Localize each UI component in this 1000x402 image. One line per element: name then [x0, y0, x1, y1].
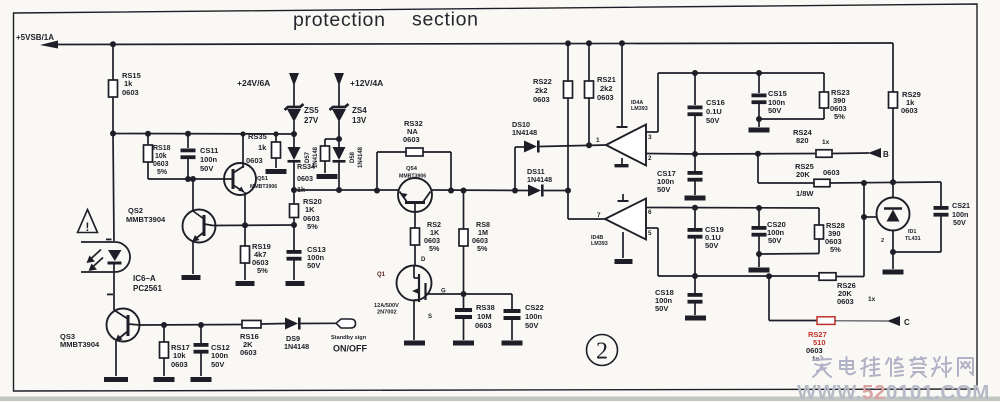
- op-amp B gnd stem: [622, 232, 624, 258]
- svg-text:0603: 0603: [806, 346, 823, 355]
- wire QS3 emitter: [115, 341, 117, 376]
- junction y179 x188: [185, 176, 191, 182]
- ground RS38: [453, 341, 474, 346]
- wire RS8 bottom: [463, 246, 465, 294]
- svg-text:D: D: [421, 257, 426, 263]
- wire RS25 right: [830, 182, 941, 183]
- junction RS25 x893: [890, 179, 896, 185]
- wire row y73: [658, 72, 824, 74]
- wire bus y276: [658, 275, 819, 277]
- resistor RS2: [411, 228, 420, 245]
- wire CS18 bottom: [694, 303, 696, 315]
- svg-text:!: !: [86, 222, 90, 234]
- svg-text:0603: 0603: [240, 348, 257, 357]
- wire DS9 out: [301, 322, 336, 324]
- wire CS22 drop: [511, 294, 513, 309]
- ground CS22: [502, 341, 523, 346]
- svg-text:820: 820: [796, 136, 809, 145]
- svg-text:0603: 0603: [246, 156, 263, 165]
- svg-text:TL431: TL431: [905, 236, 921, 242]
- wire RS19 bottom: [244, 263, 246, 280]
- svg-text:1N4148: 1N4148: [358, 146, 364, 168]
- junction pin6 x759: [756, 205, 762, 211]
- wire CS15 bottom: [758, 104, 760, 120]
- svg-text:13V: 13V: [352, 116, 367, 125]
- capacitor CS11: [181, 149, 196, 153]
- wire RS18 bottom: [147, 162, 149, 179]
- svg-text:QS2: QS2: [128, 206, 143, 215]
- svg-text:0603: 0603: [475, 321, 492, 330]
- watermark hanzi jia: [813, 356, 831, 377]
- resistor RS16: [242, 320, 261, 328]
- op-amp A Vplus stem: [621, 43, 623, 127]
- svg-text:CS22: CS22: [525, 303, 544, 312]
- svg-text:Standby sign: Standby sign: [331, 335, 367, 341]
- svg-text:2k2: 2k2: [535, 86, 548, 95]
- watermark hanzi xiu: [886, 357, 903, 376]
- wire RS35 top: [275, 134, 277, 142]
- svg-text:ON/OFF: ON/OFF: [333, 344, 367, 354]
- wire RS29 bottom: [892, 108, 894, 182]
- svg-text:5%: 5%: [834, 112, 845, 121]
- resistor RS15: [109, 80, 118, 97]
- wire RS23 top: [823, 73, 825, 92]
- wire pin2 row: [695, 153, 816, 156]
- svg-text:5%: 5%: [429, 244, 440, 253]
- wire CS20 gnd stem: [758, 254, 760, 267]
- svg-text:50V: 50V: [768, 106, 781, 115]
- resistor RS29: [889, 92, 898, 108]
- wire opto top: [113, 134, 114, 242]
- svg-text:RS34: RS34: [297, 162, 315, 171]
- junction y190 x463: [461, 188, 467, 194]
- svg-text:MMBT3906: MMBT3906: [399, 174, 426, 180]
- resistor RS34: [321, 146, 330, 161]
- tl431 ID1: [877, 198, 910, 231]
- ground CS15: [749, 128, 770, 133]
- resistor RS8: [459, 229, 468, 246]
- wire RS19 top: [244, 225, 246, 246]
- svg-text:50V: 50V: [655, 304, 668, 313]
- capacitor CS19: [688, 228, 703, 232]
- svg-text:B: B: [883, 150, 889, 159]
- resistor RS22: [564, 81, 573, 98]
- op-amp ID4A: [606, 125, 646, 166]
- svg-text:RS21: RS21: [597, 75, 616, 84]
- capacitor CS13: [287, 250, 302, 254]
- op-amp ID4B: [605, 199, 646, 240]
- svg-text:12A/500V: 12A/500V: [374, 303, 399, 309]
- wire RS20 top: [293, 190, 295, 204]
- svg-text:1x: 1x: [868, 296, 876, 303]
- wire CS21 bottom: [940, 216, 942, 252]
- capacitor CS21: [934, 206, 949, 210]
- svg-text:2k2: 2k2: [600, 84, 613, 93]
- wire RS22 bottom: [567, 98, 569, 191]
- watermark hanzi wang: [958, 358, 973, 376]
- wire DS10 drop: [514, 147, 516, 191]
- junction y190 x377: [374, 188, 380, 194]
- ground RS34: [317, 174, 338, 179]
- junction pin6 x695: [692, 205, 698, 211]
- wire TL431 top: [892, 182, 894, 198]
- resistor RS35: [272, 142, 281, 158]
- junction y190 x515: [512, 188, 518, 194]
- capacitor CS16: [688, 106, 703, 110]
- svg-text:S: S: [428, 314, 432, 320]
- wire gate row: [432, 293, 513, 295]
- diode DS10: [524, 141, 537, 153]
- svg-text:50V: 50V: [307, 261, 320, 270]
- svg-text:WWW.520101.COM: WWW.520101.COM: [797, 381, 990, 402]
- node C arrow: [887, 316, 900, 326]
- wire CS12 top: [200, 325, 202, 343]
- resistor RS27: [817, 317, 835, 325]
- light arrows: [89, 250, 101, 261]
- junction pin2 x758: [755, 151, 761, 157]
- connector standby: [336, 319, 356, 328]
- watermark hanzi wei: [861, 357, 880, 376]
- wire DS11 out: [544, 190, 568, 192]
- svg-text:10M: 10M: [477, 312, 492, 321]
- capacitor CS17: [688, 171, 703, 175]
- junction top bus x589: [586, 40, 592, 46]
- wire RS25 drop: [757, 154, 759, 183]
- svg-text:50V: 50V: [768, 236, 781, 245]
- capacitor CS20: [752, 226, 767, 230]
- wire CS20 bottom: [758, 236, 760, 254]
- svg-text:1N4148: 1N4148: [284, 342, 309, 351]
- wire RS34 link: [325, 138, 339, 140]
- svg-text:PC2561: PC2561: [133, 284, 162, 293]
- ground CS12: [191, 377, 212, 382]
- watermark hanzi liao: [932, 357, 951, 377]
- svg-text:RS18: RS18: [153, 145, 171, 152]
- wire top bus: [55, 43, 893, 45]
- wire CS13 bottom: [293, 260, 295, 280]
- wire RS32 top left: [377, 151, 406, 153]
- wire bus y190 left: [294, 189, 399, 191]
- svg-text:2: 2: [596, 339, 608, 365]
- wire pin5 drop: [657, 228, 659, 276]
- svg-text:0.1U: 0.1U: [706, 107, 722, 116]
- junction ref x864: [861, 214, 867, 220]
- svg-text:2: 2: [648, 155, 652, 162]
- wire RS27 to C: [835, 320, 888, 322]
- wire CS22 bottom: [511, 320, 513, 340]
- junction y225 x294: [291, 222, 297, 228]
- wire CS15 top: [758, 73, 760, 93]
- svg-text:CS11: CS11: [200, 146, 218, 155]
- wire CS11 top: [187, 134, 189, 148]
- wire bus y190 right: [431, 189, 528, 192]
- warning triangle: [78, 210, 98, 233]
- svg-text:50V: 50V: [657, 185, 670, 194]
- wire ZS5 top: [293, 84, 295, 106]
- junction x113 y133: [110, 131, 116, 137]
- svg-text:CS21: CS21: [952, 201, 970, 210]
- svg-text:5: 5: [648, 230, 652, 237]
- svg-text:50V: 50V: [525, 321, 538, 330]
- svg-text:1K: 1K: [305, 205, 315, 214]
- svg-text:0603: 0603: [597, 93, 614, 102]
- svg-text:5%: 5%: [257, 266, 268, 275]
- junction y73 x759: [756, 70, 762, 76]
- resistor RS24: [816, 150, 832, 158]
- wire top bus corner: [892, 43, 894, 92]
- wire pin3 up: [657, 73, 659, 132]
- junction anode: [890, 249, 896, 255]
- watermark hanzi zi: [910, 357, 926, 377]
- wire ZS4 bottom: [338, 121, 340, 147]
- node +5VSB/1A arrow: [40, 41, 58, 49]
- svg-text:1: 1: [596, 137, 600, 144]
- junction bus2 x188: [185, 131, 191, 137]
- svg-text:0603: 0603: [153, 161, 169, 168]
- transistor Q54: [398, 178, 432, 212]
- svg-text:100n: 100n: [525, 312, 543, 321]
- wire TL431 gnd stem: [892, 252, 894, 269]
- capacitor CS22: [504, 309, 521, 313]
- junction DS11 out: [565, 188, 571, 194]
- svg-text:50V: 50V: [200, 164, 213, 173]
- svg-text:+5VSB/1A: +5VSB/1A: [16, 33, 54, 42]
- wire Q1 source: [413, 300, 415, 340]
- ground QS2: [182, 275, 201, 280]
- junction ZS4 D58: [336, 136, 342, 142]
- page number 2: [587, 335, 618, 366]
- wire RS17 top: [163, 325, 165, 342]
- svg-text:RS38: RS38: [476, 303, 495, 312]
- svg-text:5%: 5%: [477, 244, 488, 253]
- wire RS22 top: [567, 43, 569, 81]
- capacitor CS12: [194, 343, 209, 347]
- svg-text:6: 6: [648, 209, 652, 216]
- svg-text:Q54: Q54: [406, 166, 418, 172]
- svg-text:5%: 5%: [307, 222, 318, 231]
- capacitor CS15: [752, 94, 767, 98]
- svg-text:0603: 0603: [171, 360, 188, 369]
- wire RS20 bottom: [293, 218, 295, 251]
- svg-text:10k: 10k: [155, 153, 167, 160]
- svg-text:1N4148: 1N4148: [512, 128, 537, 137]
- svg-text:100n: 100n: [200, 155, 218, 164]
- svg-text:LM393: LM393: [591, 241, 608, 247]
- wire D58 bottom: [338, 163, 340, 191]
- wire RS18 top: [147, 134, 149, 145]
- ground CS20: [749, 268, 770, 273]
- wire D57 bottom: [293, 163, 295, 191]
- wire RS32 left leg: [376, 152, 378, 191]
- svg-text:2: 2: [881, 238, 884, 244]
- wire bus y133: [113, 133, 294, 136]
- wire CS21 top: [940, 182, 942, 206]
- junction y325 x201: [198, 322, 204, 328]
- wire RS24 to B: [832, 152, 869, 155]
- wire RS2 bottom: [414, 245, 416, 266]
- junction bus2 x148: [145, 131, 151, 137]
- ground TL431: [883, 270, 904, 275]
- op-amp A minus tick: [621, 158, 623, 164]
- wire RS21 bottom: [588, 98, 590, 145]
- svg-text:100n: 100n: [211, 351, 229, 360]
- wire RS32 right leg: [450, 152, 452, 191]
- junction ZS5 D57: [291, 131, 297, 137]
- wire Q51 emitter: [244, 192, 246, 225]
- junction y73 x695: [692, 70, 698, 76]
- svg-text:50V: 50V: [705, 241, 718, 250]
- wire CS19 top: [694, 208, 696, 228]
- optocoupler LED: [108, 250, 122, 261]
- wire RS15 bottom: [112, 97, 114, 134]
- svg-text:50V: 50V: [706, 116, 719, 125]
- watermark hanzi dian: [840, 357, 855, 374]
- resistor RS32: [406, 148, 423, 156]
- svg-text:C: C: [904, 318, 910, 327]
- wire DS10 to out: [540, 145, 606, 147]
- resistor RS23: [820, 92, 829, 108]
- diode DS11: [528, 185, 541, 197]
- diode D58: [333, 147, 346, 160]
- junction RS25 x864: [861, 180, 867, 186]
- ground Q1: [404, 341, 425, 346]
- svg-text:1/8W: 1/8W: [796, 189, 814, 198]
- junction y225 x245: [242, 222, 248, 228]
- junction RS21 out: [586, 142, 592, 148]
- svg-text:ID1: ID1: [908, 229, 916, 235]
- arrow +12V: [334, 73, 344, 86]
- transistor Q51: [224, 163, 256, 195]
- diode DS9: [285, 318, 298, 330]
- svg-text:D58: D58: [350, 151, 356, 163]
- svg-text:+12V/4A: +12V/4A: [350, 78, 383, 88]
- mosfet Q1: [397, 266, 432, 301]
- svg-text:MMBT3904: MMBT3904: [60, 340, 100, 349]
- resistor RS28: [815, 225, 824, 239]
- wire y119 row: [759, 118, 824, 120]
- wire RS28 top corner: [818, 208, 820, 225]
- ground CS18: [685, 316, 706, 321]
- resistor RS20: [290, 204, 299, 218]
- svg-text:0603: 0603: [837, 297, 854, 306]
- zener ZS4: [330, 104, 349, 110]
- svg-text:Q1: Q1: [377, 272, 386, 278]
- svg-text:10k: 10k: [173, 351, 186, 360]
- svg-text:1k: 1k: [124, 79, 133, 88]
- junction y325 x164: [161, 322, 167, 328]
- svg-text:5%: 5%: [157, 169, 168, 176]
- wire RS17 bottom: [163, 358, 165, 376]
- svg-text:MMBT3906: MMBT3906: [250, 184, 277, 190]
- junction y276 x695: [692, 273, 698, 279]
- svg-text:IC6–A: IC6–A: [133, 274, 156, 283]
- capacitor CS18: [688, 293, 703, 297]
- junction top bus x568: [565, 40, 571, 46]
- junction y190 x451: [448, 188, 454, 194]
- wire CS20 top: [758, 208, 760, 226]
- wire CS12 bottom: [200, 353, 202, 376]
- svg-text:LM393: LM393: [631, 106, 648, 112]
- svg-text:7: 7: [597, 212, 601, 219]
- svg-text:0603: 0603: [901, 106, 918, 115]
- junction bus2 x243: [240, 131, 245, 136]
- wire RS26 right: [836, 276, 864, 278]
- svg-text:ZS4: ZS4: [352, 106, 367, 115]
- ground opampB: [615, 259, 633, 264]
- svg-text:ZS5: ZS5: [304, 106, 319, 115]
- diode D57: [288, 147, 301, 160]
- svg-text:0603: 0603: [533, 95, 550, 104]
- junction y190 x339: [336, 187, 342, 193]
- svg-text:1x: 1x: [822, 139, 830, 146]
- resistor RS38 plates: [455, 308, 472, 312]
- wire QS2 emitter: [192, 242, 194, 274]
- svg-text:3: 3: [648, 134, 652, 141]
- svg-text:0603: 0603: [823, 168, 840, 177]
- wire pin6 row: [660, 207, 819, 210]
- ground RS17: [154, 377, 175, 382]
- wire CS16 bottom: [694, 116, 696, 155]
- svg-text:RS35: RS35: [248, 132, 267, 141]
- svg-text:Q51: Q51: [257, 176, 269, 182]
- wire Q51 collector: [242, 134, 244, 168]
- wire CS17 top: [694, 154, 696, 171]
- wire CS17 bottom: [694, 181, 696, 195]
- svg-text:50V: 50V: [953, 218, 966, 227]
- resistor RS26: [819, 273, 836, 281]
- junction CS20 bottom: [756, 251, 762, 257]
- svg-text:2N7002: 2N7002: [377, 310, 397, 316]
- svg-text:protection: protection: [293, 9, 386, 31]
- wire RS34 bottom: [324, 161, 326, 173]
- wire RS28 bottom: [818, 239, 820, 254]
- svg-text:0603: 0603: [122, 88, 139, 97]
- resistor RS18: [144, 145, 153, 162]
- svg-text:50V: 50V: [211, 360, 224, 369]
- wire RS32 top right: [423, 151, 451, 153]
- junction y276 x769: [766, 273, 772, 279]
- wire CS18 top: [694, 276, 696, 293]
- svg-text:20K: 20K: [796, 170, 810, 179]
- svg-text:0603: 0603: [297, 174, 313, 183]
- ground CS17: [685, 196, 706, 201]
- wire QS2 base: [192, 179, 194, 211]
- wire opampB out: [567, 191, 569, 220]
- wire QS2 collector row: [213, 224, 294, 227]
- transistor QS2: [183, 210, 216, 243]
- wire RS25 left: [758, 182, 814, 184]
- svg-text:5%: 5%: [830, 245, 841, 254]
- wire RS15 top: [112, 44, 114, 80]
- resistor RS25: [814, 179, 830, 187]
- op-amp B plus tick: [622, 194, 624, 201]
- ground RS19: [236, 281, 255, 286]
- svg-text:section: section: [412, 9, 479, 31]
- wire CS16 top: [694, 73, 696, 105]
- transistor QS3: [107, 309, 140, 342]
- wire RS21 top: [588, 43, 590, 81]
- junction top bus x622: [619, 40, 625, 46]
- svg-text:MMBT3904: MMBT3904: [126, 215, 166, 224]
- wire RS27 drop: [768, 276, 770, 320]
- wire CS11 bottom: [187, 159, 189, 180]
- optocoupler IC6-A body: [81, 242, 130, 272]
- junction bus2 x276: [273, 131, 278, 136]
- arrow +24V: [289, 73, 299, 86]
- wire opto bottom: [113, 263, 115, 310]
- ground QS3: [104, 377, 128, 382]
- wire row y325: [140, 324, 242, 327]
